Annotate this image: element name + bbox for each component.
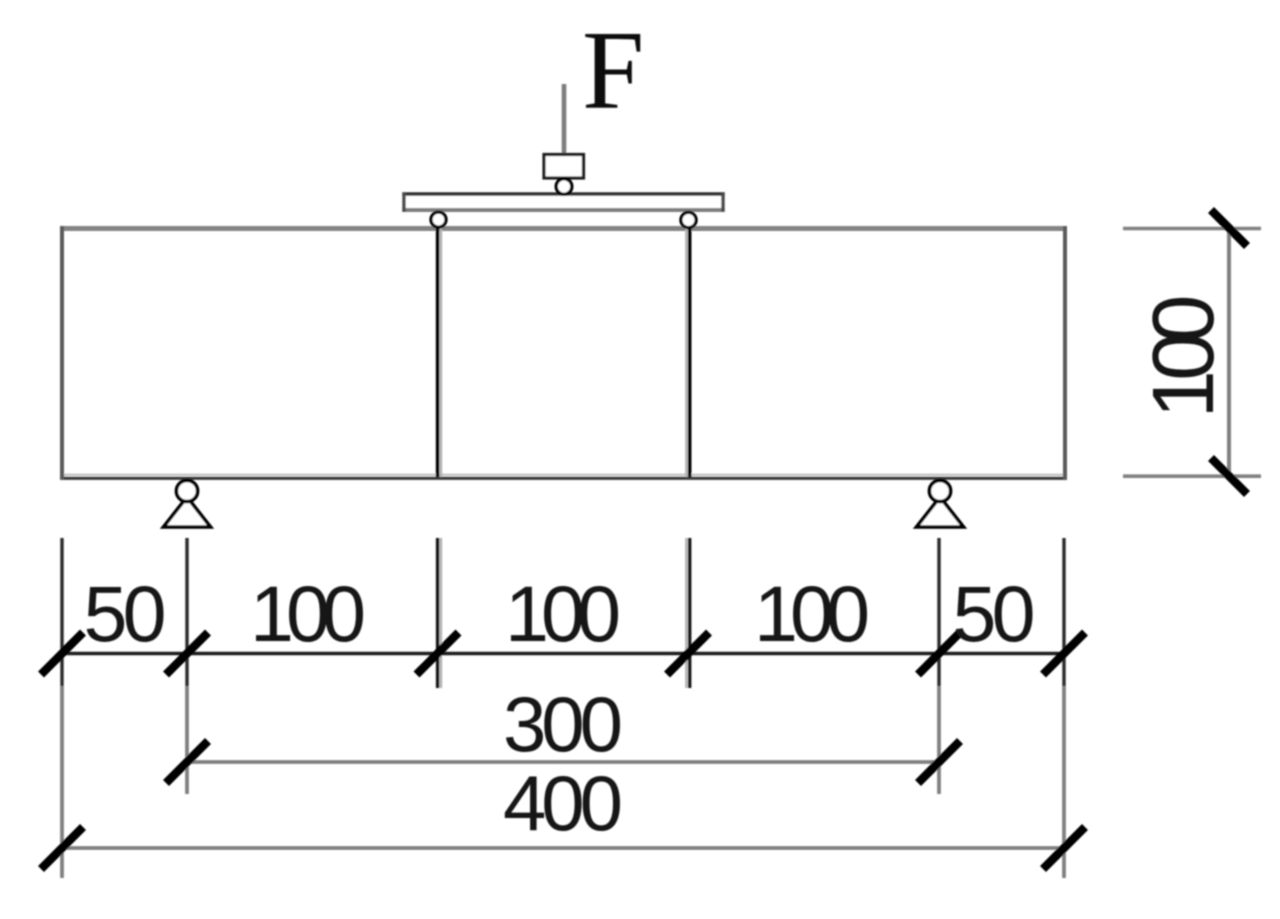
tick row1 x939 (918, 633, 960, 675)
svg-text:100: 100 (754, 569, 870, 658)
tick row1 x437 (417, 633, 459, 675)
span dim line row3 (62, 846, 1064, 850)
extension line x437 (436, 538, 439, 688)
extension line x437 gray shadow (440, 538, 443, 688)
height dim extension top (1123, 227, 1261, 231)
right notch gray shadow (685, 228, 688, 477)
extension line x62 lower (60, 686, 64, 878)
right roller (681, 212, 696, 227)
beam bottom edge (60, 477, 1067, 480)
left notch line (436, 228, 440, 477)
tick row2 x187 (166, 741, 208, 783)
spreader bar fill (404, 196, 723, 209)
svg-text:50: 50 (953, 569, 1036, 658)
extension line x939 upper (937, 538, 940, 686)
spreader bar bottom edge (402, 208, 724, 212)
tick row2 x939 (918, 741, 960, 783)
height dim line (1227, 228, 1231, 476)
extension line x187 lower (185, 686, 189, 794)
svg-text:100: 100 (250, 569, 366, 658)
beam right edge (1063, 226, 1067, 480)
left support pin circle (176, 480, 197, 501)
height dim extension bottom (1123, 474, 1261, 478)
tick row1 x688 (667, 633, 709, 675)
right support triangle (917, 497, 964, 527)
svg-text:300: 300 (503, 680, 623, 768)
right notch line (688, 228, 692, 477)
left roller (431, 212, 446, 227)
tick row3 x1064 (1043, 827, 1085, 869)
tick row1 x187 (166, 633, 208, 675)
svg-text:400: 400 (503, 759, 623, 847)
extension line x939 lower (937, 686, 941, 794)
svg-text:50: 50 (84, 569, 167, 658)
svg-text:100: 100 (505, 569, 621, 658)
extension line x187 upper (185, 538, 188, 686)
tick row1 x1064 (1043, 633, 1085, 675)
height dim tick bottom (1211, 458, 1247, 494)
extension line x62 upper (60, 538, 63, 686)
right support pin circle (929, 480, 950, 501)
span dim line row1 (62, 652, 1064, 656)
force arrow line (562, 84, 567, 158)
span dim line row2 (187, 760, 939, 764)
left support triangle (164, 497, 211, 527)
spreader bar top edge (402, 192, 724, 195)
beam left edge (60, 226, 64, 480)
beam bottom light band (62, 474, 1065, 476)
extension line x688 (688, 538, 691, 688)
tick row1 x62 (41, 633, 83, 675)
left notch gray shadow (440, 228, 443, 477)
spreader bar right end (721, 192, 724, 211)
svg-text:F: F (582, 9, 644, 133)
extension line x1064 lower (1062, 686, 1066, 878)
tick row3 x62 (41, 827, 83, 869)
load ball (556, 179, 572, 195)
load block (544, 155, 584, 179)
svg-text:100: 100 (1135, 295, 1232, 419)
extension line x1064 upper (1062, 538, 1065, 686)
height dim tick top (1211, 210, 1247, 246)
beam top edge (60, 226, 1067, 231)
extension line x688 gray shadow (685, 538, 688, 688)
spreader bar left end (402, 192, 405, 211)
